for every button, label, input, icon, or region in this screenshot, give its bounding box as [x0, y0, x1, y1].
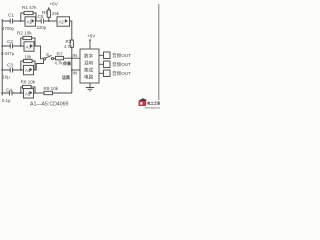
node A3 input: [20, 69, 22, 71]
svg-text:C2: C2: [7, 39, 13, 44]
watermark logo red: [139, 98, 162, 109]
wire: R7 to IN pin1: [64, 57, 81, 59]
svg-text:IN: IN: [73, 71, 78, 76]
svg-text:10μ: 10μ: [3, 74, 11, 79]
wire: A2 out down to R6: [70, 21, 72, 40]
op-amp A4: [24, 89, 34, 98]
svg-text:24k: 24k: [52, 11, 60, 16]
svg-text:音频OUT: 音频OUT: [112, 70, 131, 77]
svg-text:220p: 220p: [37, 25, 47, 30]
svg-text:4700p: 4700p: [2, 26, 15, 31]
node rail row3 junction: [1, 69, 3, 71]
svg-text:+6V: +6V: [50, 2, 59, 7]
svg-text:0.1μ: 0.1μ: [2, 98, 11, 103]
svg-text:电工之家: 电工之家: [147, 101, 160, 106]
svg-text:C4: C4: [6, 88, 12, 93]
+6V arrow box: [89, 39, 91, 41]
switch S: [44, 58, 46, 60]
svg-text:www.dgzj.com: www.dgzj.com: [145, 105, 161, 109]
wire: IN pin2: [72, 69, 80, 71]
resistor R9: [44, 91, 53, 94]
resistor R2: [23, 36, 32, 39]
svg-text:音频OUT: 音频OUT: [112, 61, 131, 68]
wire: A3 out up to switch: [34, 60, 44, 70]
svg-text:数字: 数字: [84, 53, 94, 60]
capacitor C5: [41, 19, 43, 24]
node rail row2 junction: [1, 45, 3, 47]
wire: R1 feedback loop: [21, 13, 36, 21]
svg-text:0.047μ: 0.047μ: [1, 51, 15, 56]
wire: A1 out to C5: [36, 20, 42, 22]
resistor R7: [56, 56, 64, 59]
svg-text:R2 10k: R2 10k: [17, 31, 32, 36]
wire: box out pin2: [99, 63, 104, 65]
wire: R6 down to mix node rail: [71, 47, 73, 93]
svg-text:话筒: 话筒: [62, 74, 70, 80]
ground: [86, 83, 94, 91]
svg-text:A2: A2: [59, 20, 65, 25]
svg-text:A3: A3: [26, 45, 32, 50]
svg-text:4.7k: 4.7k: [55, 61, 64, 66]
svg-text:R1 47k: R1 47k: [22, 5, 37, 10]
wire: box out pin3: [99, 72, 104, 74]
terminal square out2: [104, 61, 111, 68]
resistor R6: [70, 40, 73, 47]
resistor R8: [23, 85, 32, 88]
wire: box Vcc stub: [89, 42, 91, 50]
border right edge: [158, 4, 160, 100]
node A4 input: [20, 92, 22, 94]
wire: row2 horizontal: [2, 45, 25, 47]
wire: A2 out down to switch: [34, 46, 44, 59]
wire: row1 horizontal: [2, 20, 25, 22]
svg-text:伴奏: 伴奏: [62, 60, 72, 66]
capacitor C3: [10, 68, 12, 73]
capacitor C4: [10, 91, 12, 96]
svg-text:C1: C1: [8, 13, 14, 18]
wire: box out pin1: [99, 54, 104, 56]
node A2 input: [20, 45, 22, 47]
node mix rail / IN2 junction: [71, 69, 73, 71]
wire: left input rail: [1, 19, 3, 96]
resistor R1: [24, 11, 33, 14]
svg-text:A5: A5: [25, 92, 31, 97]
wire: R9 to mix rail: [53, 92, 72, 94]
+6V arrow top: [48, 7, 50, 9]
terminal square out3: [104, 70, 111, 77]
node mix rail / IN1 junction: [71, 57, 73, 59]
wire: A4 out to R9: [34, 92, 45, 94]
wire: R8 feedback loop: [21, 87, 35, 93]
svg-text:10k: 10k: [25, 54, 33, 59]
svg-text:集成: 集成: [84, 67, 94, 74]
op-amp A2 top right: [57, 17, 70, 26]
svg-text:A1—A5:CD4069: A1—A5:CD4069: [30, 102, 68, 108]
op-amp A1: [25, 17, 36, 26]
wire: C5 to A2: [44, 20, 57, 22]
resistor R5: [48, 7, 50, 21]
svg-text:R9 10k: R9 10k: [44, 86, 59, 91]
op-amp A3: [24, 65, 34, 74]
terminal square out1: [104, 52, 111, 59]
svg-text:电路: 电路: [84, 74, 94, 81]
capacitor C2: [10, 44, 12, 49]
node rail row4 junction: [1, 92, 3, 94]
wire: switch to R7: [54, 57, 56, 59]
node R5 bottom: [48, 20, 50, 22]
svg-text:R7: R7: [57, 51, 63, 56]
resistor R4: [24, 59, 33, 62]
svg-text:S: S: [46, 52, 49, 57]
svg-text:4.7k: 4.7k: [64, 44, 73, 49]
op-amp A2: [24, 42, 34, 51]
IC box: [80, 49, 99, 83]
capacitor C1: [10, 19, 12, 24]
wire: R2 feedback loop: [21, 38, 35, 46]
svg-text:A1: A1: [27, 20, 33, 25]
svg-text:R8 10k: R8 10k: [21, 79, 36, 84]
wire: R4 feedback loop: [21, 61, 35, 70]
svg-text:A4: A4: [25, 68, 31, 73]
svg-text:+6V: +6V: [87, 34, 96, 39]
svg-text:音频OUT: 音频OUT: [112, 52, 131, 59]
svg-text:混响: 混响: [84, 60, 94, 67]
svg-text:C3: C3: [7, 63, 13, 68]
svg-text:R5: R5: [42, 10, 48, 15]
svg-text:IN: IN: [73, 53, 78, 58]
wire: row4 horizontal: [2, 92, 25, 94]
node A1 input: [20, 20, 22, 22]
wire: row3 horizontal: [2, 69, 25, 71]
